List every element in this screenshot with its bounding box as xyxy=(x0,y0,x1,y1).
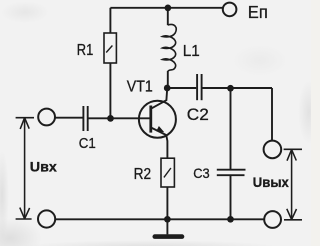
svg-text:R2: R2 xyxy=(134,166,152,183)
svg-text:L1: L1 xyxy=(183,43,200,60)
svg-text:C3: C3 xyxy=(193,165,210,181)
svg-text:Uвых: Uвых xyxy=(253,175,289,190)
svg-text:Eп: Eп xyxy=(248,2,268,22)
svg-text:R1: R1 xyxy=(77,42,94,59)
svg-text:VT1: VT1 xyxy=(127,78,153,95)
svg-text:C1: C1 xyxy=(79,135,96,152)
svg-text:Uвх: Uвх xyxy=(30,160,57,176)
svg-text:C2: C2 xyxy=(187,105,209,124)
